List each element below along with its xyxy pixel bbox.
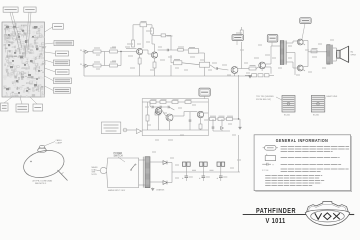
leader line	[30, 97, 37, 104]
smoothing capacitor C21	[199, 172, 205, 181]
label: component callout 5	[56, 70, 70, 75]
capacitor C10	[152, 106, 153, 109]
control label VOLUME	[267, 35, 278, 43]
note paragraph 4	[281, 168, 349, 170]
wire junction	[104, 52, 106, 66]
leader to cable grommet	[44, 142, 55, 147]
leader line	[45, 86, 54, 91]
transistor TR8	[166, 114, 173, 121]
wire supply feed	[238, 75, 240, 119]
wire	[170, 65, 172, 76]
node A (input junction)	[120, 51, 121, 52]
wire	[118, 65, 122, 67]
leader line	[45, 60, 54, 63]
wire	[239, 118, 241, 120]
svg-text:V 1011: V 1011	[266, 218, 286, 225]
wire	[307, 41, 309, 52]
resistor R22	[172, 101, 178, 104]
leader line	[20, 97, 22, 104]
power transistor package TR5 (pictorial)	[282, 96, 295, 113]
leader line to PCB	[12, 12, 22, 48]
svg-text:1 2 3 4: 1 2 3 4	[262, 170, 269, 172]
wire	[303, 70, 305, 72]
smoothing capacitor C22	[217, 172, 223, 181]
wire supply drop	[142, 27, 144, 45]
wire	[148, 53, 151, 55]
wire	[239, 119, 241, 127]
capacitor C12	[168, 106, 169, 109]
svg-text:SEE NOTE 3: SEE NOTE 3	[35, 183, 46, 185]
input jack J2	[83, 63, 89, 68]
wire	[168, 49, 178, 51]
foot switch jack J3	[123, 128, 127, 132]
wire connector drop	[185, 166, 187, 172]
label: mounting note 1	[1, 103, 9, 111]
wire	[171, 62, 174, 64]
resistor R21	[160, 101, 166, 104]
supply rail	[147, 24, 153, 26]
wire jack ground	[83, 54, 85, 76]
component value texts	[96, 40, 334, 178]
wire	[265, 66, 271, 68]
title underline	[243, 214, 307, 216]
svg-text:TR5 TR6 (VIEWED: TR5 TR6 (VIEWED	[256, 96, 274, 98]
label: component callout 1	[53, 24, 64, 30]
resistor R28	[218, 117, 224, 120]
wire	[171, 172, 173, 183]
transistor TR1	[137, 48, 143, 54]
resistor R5 supply dropper	[140, 23, 147, 27]
wire	[303, 66, 308, 68]
wire	[200, 118, 202, 124]
wire	[156, 101, 160, 103]
wire	[270, 67, 272, 74]
VOX logo	[305, 202, 350, 226]
svg-text:+: +	[182, 177, 184, 180]
wire to driver transformer	[271, 45, 280, 47]
tremolo ground rail	[142, 129, 208, 131]
rectifier diode D2	[163, 161, 167, 165]
wire	[151, 34, 153, 44]
connector plug P1	[136, 129, 141, 134]
wire	[212, 128, 214, 131]
transformer T3 (mains)	[145, 157, 150, 188]
wire	[139, 159, 145, 161]
wire	[221, 130, 223, 132]
numbered notes list	[265, 175, 322, 177]
wire	[88, 51, 93, 53]
wire	[158, 114, 160, 130]
resistor R14	[258, 74, 263, 77]
wire	[208, 118, 209, 120]
capacitor C11	[160, 106, 161, 109]
wire	[139, 184, 145, 186]
resistor R6	[132, 40, 135, 47]
resistor R12	[249, 67, 256, 70]
wire	[139, 55, 141, 58]
wire	[152, 43, 155, 45]
leader line	[45, 43, 55, 44]
wire	[154, 68, 156, 76]
PCB component layout (top view)	[2, 22, 46, 98]
resistor R23	[185, 101, 191, 104]
wire	[147, 50, 149, 54]
label: mounting note 2	[16, 104, 29, 112]
wire	[204, 53, 206, 62]
wire B+ to tremolo	[238, 135, 240, 172]
wire	[101, 65, 110, 67]
wire TR3 collector rail	[241, 42, 243, 69]
wire	[256, 67, 259, 69]
wire	[217, 69, 228, 71]
wire	[270, 46, 272, 64]
transistor TR2	[151, 52, 157, 58]
wire	[170, 35, 172, 50]
resistor R29	[227, 117, 233, 120]
svg-text:+: +	[217, 177, 219, 180]
wire	[142, 101, 150, 103]
wire	[244, 68, 249, 70]
wire	[167, 182, 172, 184]
resistor R11	[240, 30, 243, 37]
wire connector drop	[202, 166, 204, 172]
svg-text:MAINS INPUT 240V: MAINS INPUT 240V	[108, 189, 126, 192]
resistor R8	[161, 34, 166, 37]
wire	[286, 52, 295, 54]
wire	[101, 51, 110, 53]
mains loop wiring	[107, 158, 139, 188]
wire	[183, 112, 185, 117]
svg-text:HEAT SINK: HEAT SINK	[327, 95, 338, 98]
transformer T2 (output)	[327, 45, 331, 64]
resistor R18	[138, 58, 141, 64]
potentiometer VR1 (tone)	[188, 49, 198, 54]
resistor R4	[110, 64, 118, 67]
wire	[216, 118, 219, 120]
wire	[234, 73, 236, 76]
wire	[166, 34, 171, 36]
wire	[303, 44, 305, 46]
leader line to PCB	[25, 12, 29, 58]
loudspeaker LS1	[337, 46, 349, 62]
wire	[173, 115, 184, 117]
wire	[151, 25, 153, 28]
wire	[333, 60, 337, 62]
svg-text:PATHFINDER: PATHFINDER	[256, 206, 296, 215]
transistor TR3	[231, 67, 238, 74]
symbol: capacitor legend	[265, 153, 276, 160]
wire	[166, 101, 172, 103]
resistor R15	[264, 74, 269, 77]
tremolo circuit enclosure	[142, 99, 208, 136]
wire	[333, 47, 337, 49]
wire	[233, 118, 239, 120]
leader line to PCB	[10, 12, 20, 52]
connector pair CN2	[200, 162, 208, 166]
wire	[147, 102, 149, 115]
wire	[303, 40, 308, 42]
wire	[307, 52, 309, 67]
wire	[132, 25, 134, 40]
connector pair CN1	[183, 162, 191, 166]
supply rail	[133, 24, 140, 26]
svg-text:CHASSIS: CHASSIS	[156, 189, 165, 192]
svg-text:BC441: BC441	[284, 115, 291, 117]
svg-text:8Ω: 8Ω	[351, 52, 354, 54]
svg-text:IN: IN	[80, 50, 82, 52]
svg-text:IN: IN	[80, 64, 82, 66]
resistor R7	[151, 28, 154, 34]
label: component callout 7	[53, 88, 70, 93]
mains plug	[97, 167, 107, 173]
wire	[182, 63, 200, 65]
ground (chassis)	[248, 76, 251, 78]
wire	[171, 163, 173, 173]
resistor R25	[146, 115, 149, 121]
wire	[161, 106, 167, 108]
wire	[170, 55, 172, 63]
wire	[245, 74, 252, 76]
wire T1 secondary top	[286, 42, 293, 44]
svg-text:FROM BELOW): FROM BELOW)	[256, 99, 271, 101]
wire	[158, 49, 168, 51]
leader line	[45, 52, 56, 54]
wire	[191, 101, 208, 103]
wire	[293, 67, 297, 69]
wire	[183, 49, 188, 51]
mains cable coil drawing	[21, 145, 68, 181]
svg-text:BC461: BC461	[313, 115, 320, 117]
diode D1	[221, 127, 224, 130]
wire	[178, 101, 185, 103]
wire	[200, 129, 202, 130]
wire	[198, 50, 201, 52]
wire	[265, 63, 271, 65]
resistor R9	[178, 48, 184, 51]
wire	[336, 57, 338, 61]
wire	[199, 52, 205, 54]
leader line	[45, 27, 53, 32]
wire	[189, 121, 191, 130]
leader line	[45, 76, 54, 81]
resistor R3	[110, 50, 118, 53]
wire	[147, 121, 149, 130]
ground rail (0V)	[84, 75, 250, 77]
wire	[142, 45, 144, 48]
transformer T1 (driver)	[280, 41, 284, 65]
wire	[204, 112, 209, 114]
wire connector drop	[220, 166, 222, 172]
switch SW1	[131, 165, 135, 170]
wire	[139, 64, 141, 76]
wire	[204, 67, 206, 76]
transformer T1 core	[284, 41, 286, 65]
control label OUTPUT	[300, 18, 312, 24]
transistor TR4	[259, 62, 266, 69]
svg-text:+: +	[199, 177, 201, 180]
label: component callout 2	[54, 41, 74, 46]
wire	[241, 27, 243, 30]
transistor TR9	[197, 111, 203, 117]
wire	[221, 119, 223, 127]
wire to output transformer	[308, 51, 327, 53]
svg-text:NOTE: NOTE	[92, 174, 98, 176]
resistor R26	[199, 124, 202, 129]
control label TONE	[232, 35, 244, 41]
power transistor package TR6 (pictorial)	[311, 96, 325, 113]
capacitor C13	[189, 120, 192, 121]
input jack J1	[83, 49, 89, 54]
resistor R2	[93, 64, 101, 67]
wire	[292, 41, 294, 43]
wire	[126, 48, 137, 50]
transistor TR7	[155, 108, 162, 115]
node B	[238, 118, 239, 119]
resistor R20	[150, 101, 156, 104]
resistor R27	[210, 117, 216, 120]
wire	[169, 121, 171, 130]
wire multivibrator cross	[162, 110, 166, 117]
general information box	[254, 135, 352, 192]
ground (tremolo)	[238, 127, 241, 129]
svg-text:GENERAL INFORMATION: GENERAL INFORMATION	[276, 138, 329, 143]
resistor R17	[153, 62, 156, 68]
wire secondary bottom	[150, 181, 163, 183]
wire	[143, 49, 148, 51]
capacitor C1	[167, 49, 168, 52]
wire secondary top	[150, 161, 163, 163]
resistor R1	[93, 50, 101, 53]
label: mounting note 3	[33, 104, 43, 111]
wire	[167, 162, 172, 164]
wire	[127, 129, 136, 131]
transistor TR5 (output)	[297, 39, 303, 45]
label: component callout 4	[53, 60, 69, 66]
smoothing capacitor C20	[182, 172, 188, 181]
leader line to PCB	[28, 12, 31, 50]
leader line	[45, 68, 56, 72]
wire	[189, 112, 191, 120]
capacitor C2	[216, 67, 217, 70]
symbol: polarity legend	[262, 163, 274, 167]
rectifier diode D3	[163, 181, 167, 185]
label: component callout 3	[56, 51, 69, 56]
wire	[213, 130, 230, 132]
wire T1 secondary bottom	[286, 61, 293, 63]
wire	[153, 106, 159, 108]
wire	[212, 119, 214, 127]
wire	[149, 102, 151, 106]
foot switch box	[101, 122, 120, 134]
svg-text:SPKR: SPKR	[351, 55, 357, 57]
label: component callout 6	[53, 78, 71, 84]
resistor R13	[252, 74, 257, 77]
transistor TR6 (output)	[297, 65, 303, 71]
wire	[141, 130, 144, 132]
wire	[150, 106, 151, 107]
B+ rail	[172, 171, 240, 173]
transformer T3 core lines	[142, 157, 144, 188]
wire	[118, 51, 137, 53]
control label SPEED	[199, 88, 210, 96]
resistor R16	[311, 50, 317, 53]
leader line	[4, 97, 12, 103]
wire emitter rail	[294, 53, 296, 76]
wire	[293, 40, 297, 42]
wire	[336, 48, 338, 52]
connector pair CN3	[217, 162, 225, 166]
capacitor C14	[212, 127, 215, 128]
svg-text:CLAMP: CLAMP	[56, 141, 63, 144]
note paragraph 2	[281, 157, 340, 159]
wire	[261, 69, 263, 71]
resistor R30 (rail)	[192, 169, 196, 171]
wire collector TR2	[154, 44, 156, 52]
wire	[184, 111, 197, 113]
ground (mains earth)	[151, 188, 154, 190]
potentiometer VR2 (volume)	[199, 62, 209, 67]
symbol: resistor legend	[263, 145, 278, 150]
wire	[292, 62, 294, 68]
label: preamp PCB part number	[3, 7, 18, 12]
wire	[269, 74, 274, 76]
wire	[169, 107, 174, 110]
wire	[152, 34, 161, 36]
label: PCB issue number	[24, 7, 36, 12]
wire	[210, 65, 216, 69]
wire	[154, 58, 156, 62]
wire	[152, 187, 154, 190]
note paragraph 3	[281, 164, 342, 166]
resistor R24	[155, 112, 160, 115]
transformer T2 core	[330, 45, 332, 64]
wire	[88, 65, 93, 67]
resistor R10	[174, 61, 182, 65]
wire	[224, 118, 227, 120]
note paragraph 1	[281, 146, 350, 148]
wire	[238, 68, 244, 70]
wire	[120, 52, 122, 66]
